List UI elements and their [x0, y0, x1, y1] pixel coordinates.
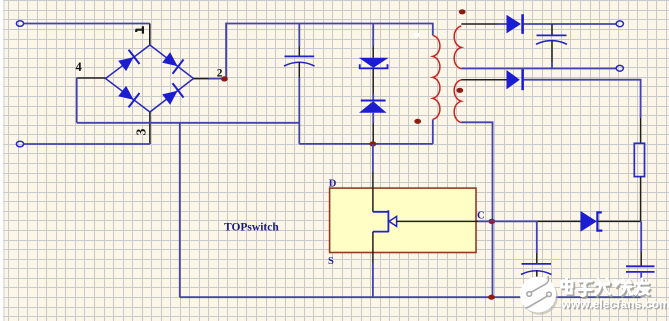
capacitor C1 pin top (black) [298, 24, 300, 47]
wire: primary bottom riser [432, 119, 434, 143]
wire: drain row horizontal [299, 143, 433, 145]
pin 4 of bridge (black stub left) [77, 77, 106, 79]
window edge strip [0, 0, 3, 321]
wire: node 2 up to +DC rail [225, 23, 227, 79]
capacitor C4 pin top [640, 221, 642, 252]
capacitor C1 (input bulk, polarized) [285, 55, 315, 57]
capacitor C2 pin top (black) [551, 24, 553, 35]
diode D6 (output rectifier top) [507, 15, 522, 34]
svg-text:S: S [328, 256, 334, 267]
zener VR1 (clamp TVS, pointing down) [359, 58, 389, 68]
capacitor C3 pin top [536, 221, 538, 253]
svg-text:4: 4 [76, 60, 83, 74]
pin 3 of bridge (black stub down) [149, 112, 151, 144]
watermark logo circle [520, 276, 558, 315]
diode D7 (bias rectifier) [507, 70, 520, 89]
bridge diode D4 (bottom-right arm) [161, 83, 184, 106]
terminal J2 (AC input bottom-left) [16, 141, 23, 147]
junction dot ground node [488, 295, 495, 300]
pin label 1 (rotated) [136, 26, 143, 33]
capacitor C4 pin bottom [640, 272, 642, 297]
pin 2 of bridge (black stub right) [194, 78, 210, 80]
wire: D6 to terminal J3 [524, 23, 617, 25]
transformer T1 primary winding [433, 35, 440, 119]
pin 1 of bridge (black stub down to top vertex) [149, 24, 151, 46]
pin: D5 anode down to drain junction [372, 113, 374, 123]
wire: D8 to right column (black) [599, 220, 641, 222]
wire: left drop to bottom rail [179, 123, 181, 297]
wire: J1 to bridge pin 1 [24, 23, 150, 25]
polarity dot secondary A [459, 9, 466, 14]
pin: resistor top (black) [640, 118, 642, 143]
wire: C node row [478, 220, 537, 222]
pin: resistor bottom to C row (black) [640, 177, 642, 222]
svg-text:www.elecfans.com: www.elecfans.com [561, 297, 669, 311]
wire: J2 to bridge pin 3 [24, 143, 150, 145]
pin: source wire out of U1 [372, 232, 374, 263]
capacitor C3 (control bypass, polarized) [522, 263, 552, 265]
wire: bottom ground rail [180, 296, 641, 298]
svg-text:3: 3 [134, 128, 149, 135]
no-ERC white marker [414, 33, 419, 37]
transformer T1 secondary winding A [454, 26, 461, 69]
capacitor C2 (output, polarized) [537, 34, 567, 36]
wire: VR1 to D5 (black) [372, 68, 374, 94]
bridge diode D3 (bottom-left arm) [117, 84, 140, 107]
polarity dot primary [414, 119, 421, 124]
wire: negative rail horizontal [77, 122, 300, 124]
wire: +DC top rail [226, 24, 433, 36]
wire: D7 output to right column [524, 80, 641, 118]
zener D8 (bias zener) [581, 211, 597, 232]
transformer T1 secondary winding B [454, 80, 461, 123]
wire: node 2 to junction [209, 78, 226, 80]
resistor R1 [634, 143, 644, 176]
polarity dot secondary B [456, 88, 463, 93]
junction dot C node [488, 219, 495, 224]
junction dot node 2 [221, 76, 228, 81]
bridge diode D1 (top-left arm) [117, 50, 140, 73]
svg-text:TOPswitch: TOPswitch [224, 222, 279, 234]
pin: drain wire into U1 [372, 144, 374, 172]
terminal J1 (AC input top-left) [16, 21, 23, 27]
wire: secondary B top to D7 (black) [461, 79, 506, 81]
capacitor C3 pin bottom [536, 270, 538, 283]
terminal J4 (output return) [616, 65, 623, 71]
bridge rectifier diamond outline [106, 45, 194, 112]
bridge diode D2 (top-right arm) [161, 50, 184, 73]
wire: center tap rail to terminal J4 [461, 68, 616, 70]
capacitor C1 pin bottom [298, 62, 300, 78]
wire: secondary B bottom return [461, 122, 492, 297]
capacitor C4 (feedback cap) [626, 265, 655, 267]
svg-text:D: D [329, 179, 337, 190]
mosfet Q1 inside U1 [373, 210, 389, 232]
wire: secondary A top to D6 (black) [461, 23, 497, 25]
watermark text CJK (drawn glyphs) [563, 280, 650, 297]
wire: C1 bottom down to drain row [298, 78, 300, 144]
pin: control wire out of U1 (black) [397, 220, 478, 222]
svg-text:C: C [477, 211, 485, 222]
TOPswitch U1 body [330, 188, 476, 252]
capacitor C2 pin bottom [551, 41, 553, 63]
terminal J3 (output + top-right) [616, 21, 623, 27]
junction dot drain node [370, 141, 377, 146]
diode D5 (clamp blocking diode, pointing up) [361, 100, 386, 102]
wire: bridge 4 down left side [76, 78, 78, 123]
zener VR1 pin from rail (blue then black) [372, 24, 374, 46]
